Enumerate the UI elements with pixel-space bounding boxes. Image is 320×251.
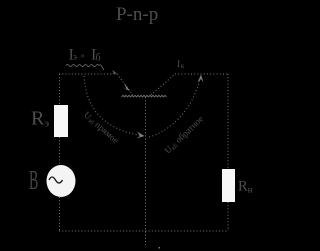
- arrowhead of squiggle at emitter junction: [111, 70, 117, 74]
- wire: left vertical between Rэ and source: [59, 137, 61, 166]
- resistor Rн (white box): [222, 169, 235, 202]
- svg-text:Iэ»Iб: Iэ»Iб: [69, 47, 101, 64]
- right arc: current path base->collector: [149, 75, 201, 137]
- svg-text:P-n-p: P-n-p: [116, 4, 158, 25]
- transistor VT1: collector lead: [151, 74, 175, 95]
- wire: top-left horizontal (emitter feed): [59, 73, 117, 75]
- left arc: hole current path emitter->base: [84, 76, 144, 136]
- wire: right vertical upper segment: [227, 74, 229, 169]
- right arc arrowhead: [198, 75, 204, 83]
- svg-text:Uкб обратное: Uкб обратное: [162, 114, 206, 157]
- svg-text:Rэ: Rэ: [31, 108, 49, 130]
- wire: right vertical lower segment: [227, 202, 229, 231]
- svg-text:Iк: Iк: [177, 60, 185, 70]
- transistor VT1: base lead (vertical): [145, 97, 147, 247]
- transistor VT1: emitter lead: [117, 74, 133, 95]
- title P-n-p: [116, 4, 158, 25]
- transistor VT1: emitter arrowhead (PNP, points to base): [122, 83, 130, 91]
- svg-text:Rн: Rн: [238, 179, 253, 196]
- wire: left vertical upper segment: [59, 74, 61, 105]
- wire: top-right horizontal (collector feed): [175, 73, 228, 75]
- AC source G1 (circle with tilde): [47, 165, 76, 197]
- transistor VT1: base bar (zigzag): [122, 95, 167, 97]
- svg-text:Uэб прямое: Uэб прямое: [81, 110, 121, 146]
- wire: bottom horizontal: [59, 230, 228, 232]
- svg-text:В: В: [29, 165, 38, 195]
- stray dot (caption remnant): [159, 247, 161, 249]
- wire: left vertical lower segment: [59, 197, 61, 231]
- left arc arrowhead: [137, 132, 145, 139]
- squiggle arrow under Iэ label: [66, 64, 104, 70]
- resistor Rэ (white box): [54, 105, 68, 137]
